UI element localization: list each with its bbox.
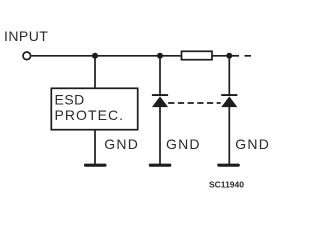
- node INPUT terminal: [23, 52, 31, 60]
- svg-text:PROTEC.: PROTEC.: [55, 107, 125, 123]
- node C junction dot: [226, 53, 232, 59]
- svg-text:GND: GND: [235, 136, 270, 152]
- wire diode D2 anode to ground 3: [228, 106, 230, 164]
- wire diode D1 anode to ground 2: [159, 106, 161, 164]
- diode D1 anode triangle: [152, 96, 168, 107]
- svg-text:ESD: ESD: [55, 91, 85, 107]
- svg-text:SC11940: SC11940: [209, 180, 244, 190]
- wire node A to node B: [95, 55, 160, 57]
- wire input terminal to node A: [32, 55, 96, 57]
- svg-text:INPUT: INPUT: [4, 28, 48, 44]
- node A junction dot: [92, 53, 98, 59]
- ground 2 bar: [149, 164, 172, 167]
- resistor body: [182, 51, 213, 59]
- diode D1 cathode bar: [152, 94, 168, 96]
- wire continuation stub right of node C: [229, 55, 239, 57]
- diode D2 anode triangle: [221, 96, 237, 107]
- svg-text:GND: GND: [166, 136, 201, 152]
- wire node B down to diode D1 cathode: [159, 56, 161, 96]
- dashed line between D1 and D2: [168, 102, 220, 104]
- svg-text:GND: GND: [104, 136, 139, 152]
- diode D2 cathode bar: [221, 94, 237, 96]
- continuation dash: [245, 55, 252, 57]
- ground 1 bar: [84, 164, 107, 167]
- wire node A down to ESD box: [94, 56, 96, 88]
- ESD protection box: [51, 88, 137, 129]
- wire ESD box to ground 1: [94, 130, 96, 164]
- wire node C down to diode D2 cathode: [228, 56, 230, 96]
- ground 3 bar: [217, 164, 240, 167]
- wire resistor right lead to node C: [212, 55, 229, 57]
- wire node B to resistor left lead: [160, 55, 181, 57]
- node B junction dot: [157, 53, 163, 59]
